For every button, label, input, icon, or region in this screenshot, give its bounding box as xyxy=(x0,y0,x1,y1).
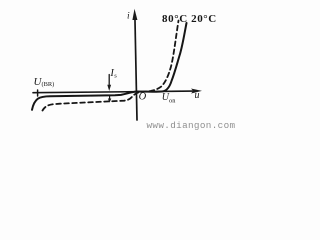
u axis (horizontal) xyxy=(33,91,193,93)
tick U(BR) xyxy=(37,90,39,96)
svg-text:u: u xyxy=(195,90,200,101)
svg-text:(BR): (BR) xyxy=(42,81,55,88)
u axis arrowhead xyxy=(191,89,202,94)
Is arrow upper (down to axis) xyxy=(108,75,110,86)
solid 20C curve xyxy=(32,23,187,110)
svg-text:i: i xyxy=(127,11,130,21)
i axis arrowhead xyxy=(132,9,137,20)
svg-text:on: on xyxy=(169,97,176,104)
svg-text:www.diangon.com: www.diangon.com xyxy=(147,120,236,131)
svg-text:80°C 20°C: 80°C 20°C xyxy=(162,13,217,25)
svg-text:O: O xyxy=(139,91,147,102)
i axis (vertical) xyxy=(135,16,137,120)
dashed 80C curve xyxy=(43,21,179,111)
Is arrow lower (down to dashed curve) xyxy=(109,97,111,100)
diode V-I characteristic diagram xyxy=(0,0,240,133)
